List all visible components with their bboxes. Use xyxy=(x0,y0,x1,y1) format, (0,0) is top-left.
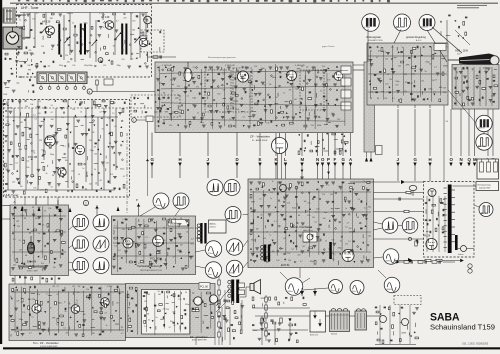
terminal G mid xyxy=(342,133,344,156)
terminal O mid xyxy=(322,133,324,156)
svg-text:1n: 1n xyxy=(249,96,251,98)
svg-text:G: G xyxy=(151,157,155,162)
svg-text:kaskade 18kV: kaskade 18kV xyxy=(479,188,491,190)
svg-text:geriete Regelung: geriete Regelung xyxy=(406,35,426,39)
svg-text:5k: 5k xyxy=(75,117,77,119)
svg-text:68: 68 xyxy=(100,180,102,182)
svg-text:100: 100 xyxy=(368,235,371,237)
svg-text:50: 50 xyxy=(340,240,342,242)
svg-text:4,7: 4,7 xyxy=(347,222,350,224)
svg-text:10k: 10k xyxy=(368,206,371,208)
video IF tube below block xyxy=(272,138,288,154)
width coil xyxy=(468,264,472,268)
svg-text:5k: 5k xyxy=(7,121,9,123)
ton-zf parts xyxy=(12,288,14,291)
ton-zf bus wires xyxy=(11,291,124,293)
videosignal scope circle xyxy=(362,14,380,32)
wire ZF top to video strip xyxy=(353,64,364,66)
svg-text:2,2: 2,2 xyxy=(364,207,367,209)
svg-text:330p: 330p xyxy=(116,65,120,67)
wire boost to line box xyxy=(405,181,424,183)
wires sync block to ton block xyxy=(14,276,16,285)
channel strip segment 1 xyxy=(39,74,47,82)
oscillator coupling parts xyxy=(153,56,158,58)
wire bottom sync to ton xyxy=(69,269,77,271)
circled 1 node xyxy=(132,118,137,123)
terminal G right xyxy=(414,109,416,156)
ZF internal bus rows xyxy=(160,70,348,73)
svg-text:1n: 1n xyxy=(102,166,104,168)
UHF tuner interior wires xyxy=(23,13,25,41)
scope circle above vert 2 xyxy=(173,193,189,209)
svg-text:2,2: 2,2 xyxy=(29,333,32,335)
wires grey block to line stage xyxy=(374,192,424,194)
svg-text:50: 50 xyxy=(163,121,165,123)
svg-text:1n: 1n xyxy=(325,240,327,242)
wire video block to terminals xyxy=(397,105,399,108)
AGC parts under ZF block xyxy=(298,134,300,136)
svg-text:50: 50 xyxy=(180,218,182,220)
svg-text:VERTICAL DEFLECTION: VERTICAL DEFLECTION xyxy=(140,269,162,272)
svg-text:4,7: 4,7 xyxy=(116,21,119,23)
svg-text:220: 220 xyxy=(395,84,398,86)
UHF trimmer arrows xyxy=(42,27,47,33)
sync waveform circle r1c2 xyxy=(93,215,109,231)
vert tube PCL85 triode xyxy=(123,238,133,248)
shield bar 4 xyxy=(121,24,123,55)
svg-text:47k: 47k xyxy=(103,65,106,67)
svg-text:einheit: einheit xyxy=(210,226,216,229)
svg-text:68: 68 xyxy=(94,147,96,149)
ton-zf transistor 3 xyxy=(101,298,110,307)
svg-text:5k: 5k xyxy=(32,53,34,55)
svg-text:220: 220 xyxy=(385,84,388,86)
svg-text:10k: 10k xyxy=(398,65,401,67)
tuner to sync connector wires xyxy=(14,197,16,205)
svg-text:0,1: 0,1 xyxy=(33,115,36,117)
terminal M right xyxy=(474,109,476,156)
svg-text:1M: 1M xyxy=(122,229,125,231)
transistor T1 AF139 xyxy=(46,26,55,35)
mixer transistor xyxy=(139,38,147,46)
svg-text:10k: 10k xyxy=(86,289,89,291)
tube cathode wires down xyxy=(277,154,279,181)
svg-text:50Vss: 50Vss xyxy=(226,191,231,193)
svg-text:220: 220 xyxy=(67,61,70,63)
wire transformer to speaker xyxy=(240,296,246,298)
wire to right scope circles xyxy=(448,90,476,123)
svg-text:1n: 1n xyxy=(270,198,272,200)
svg-text:12k: 12k xyxy=(389,79,392,81)
svg-text:330p: 330p xyxy=(8,108,12,110)
svg-text:PCL 85: PCL 85 xyxy=(150,257,160,261)
svg-text:M: M xyxy=(473,157,477,162)
svg-text:68: 68 xyxy=(113,45,115,47)
svg-text:A59 - 11W: A59 - 11W xyxy=(455,49,468,53)
svg-text:100: 100 xyxy=(120,27,123,29)
svg-text:50: 50 xyxy=(33,38,35,40)
svg-text:900Vss: 900Vss xyxy=(385,260,391,262)
svg-text:330p: 330p xyxy=(310,261,314,263)
svg-text:220: 220 xyxy=(297,255,300,257)
svg-text:2Vss: 2Vss xyxy=(209,191,213,193)
vert output transformer core bar 2 xyxy=(204,223,206,244)
scope circle mid single xyxy=(225,207,241,223)
svg-text:12k: 12k xyxy=(384,98,387,100)
wire transformer down xyxy=(240,303,242,330)
AGC small parts top right xyxy=(448,14,450,16)
horiz internal bus rows xyxy=(250,191,371,193)
terminal E mid xyxy=(259,133,261,156)
svg-text:O: O xyxy=(321,157,325,162)
svg-text:1M: 1M xyxy=(256,228,259,230)
svg-text:1n: 1n xyxy=(197,112,199,114)
svg-text:12k: 12k xyxy=(22,312,25,314)
svg-text:330p: 330p xyxy=(395,81,399,83)
svg-text:0,1: 0,1 xyxy=(270,192,273,194)
svg-text:0,1: 0,1 xyxy=(411,83,414,85)
NF audio block xyxy=(126,284,216,338)
svg-text:2,2: 2,2 xyxy=(186,95,189,97)
diode at sync top xyxy=(55,206,59,210)
ps horizontal wires xyxy=(252,307,310,309)
scope circle above vert 1 xyxy=(153,193,169,209)
balun parts left column xyxy=(5,53,8,55)
svg-text:4,7: 4,7 xyxy=(51,112,54,114)
audio output transformer core bar 1 xyxy=(231,280,234,304)
ZF right edge boxes xyxy=(341,66,351,74)
svg-text:1n: 1n xyxy=(106,325,108,327)
svg-text:47k: 47k xyxy=(191,243,194,245)
svg-text:4,7: 4,7 xyxy=(376,57,379,59)
svg-text:50: 50 xyxy=(51,186,53,188)
svg-text:2,2: 2,2 xyxy=(122,219,125,221)
horiz single core bar xyxy=(329,242,332,259)
svg-text:47k: 47k xyxy=(196,86,199,88)
svg-text:47k: 47k xyxy=(327,80,330,82)
svg-text:1M: 1M xyxy=(159,99,162,101)
tuner channel strip xyxy=(37,72,87,84)
svg-text:5k: 5k xyxy=(158,70,160,72)
parts row between sync and sound blocks xyxy=(12,278,14,281)
svg-text:220: 220 xyxy=(121,59,124,61)
scope circles grid right of vert 2 xyxy=(226,239,242,255)
svg-text:4,7: 4,7 xyxy=(169,327,172,329)
svg-text:H: H xyxy=(179,157,182,162)
wire ZF to video strip xyxy=(353,69,364,71)
antenna input connector xyxy=(3,8,15,23)
scope circle ps 2 xyxy=(350,281,364,295)
svg-text:4,7: 4,7 xyxy=(103,27,106,29)
channel strip segment 3 xyxy=(58,74,66,82)
svg-text:2,2: 2,2 xyxy=(357,199,360,201)
power wiring bottom xyxy=(255,315,310,317)
svg-text:AF 139: AF 139 xyxy=(101,15,110,19)
svg-text:220: 220 xyxy=(166,309,169,311)
parts on wires to line stage xyxy=(406,191,411,193)
terminal J wire xyxy=(207,133,209,157)
svg-text:P: P xyxy=(327,157,330,162)
svg-text:4,7: 4,7 xyxy=(172,257,175,259)
Horiz-Oszillator block xyxy=(248,179,374,268)
svg-text:50: 50 xyxy=(158,291,160,293)
booster diode tube PY81 xyxy=(428,189,436,197)
sync waveform circle r3c1 xyxy=(73,258,89,274)
svg-text:68: 68 xyxy=(298,215,300,217)
link wire circled1 xyxy=(136,119,146,121)
svg-text:10k: 10k xyxy=(20,186,23,188)
ps mid extra parts xyxy=(252,297,254,300)
boost rail parts row xyxy=(408,258,413,263)
svg-text:Q: Q xyxy=(468,157,472,162)
video amp parts xyxy=(369,46,371,48)
svg-text:650Vss: 650Vss xyxy=(386,289,392,291)
UHF tuner enclosure xyxy=(17,5,152,78)
svg-text:330p: 330p xyxy=(120,169,124,171)
svg-text:80Vss: 80Vss xyxy=(229,251,234,253)
svg-text:33Vss: 33Vss xyxy=(384,229,389,231)
flyback EHT winding bar xyxy=(455,235,458,250)
svg-text:1M: 1M xyxy=(19,249,22,251)
wire from tuner to IF strip xyxy=(92,91,199,93)
svg-text:H: H xyxy=(429,157,432,162)
audio inner box xyxy=(142,290,191,335)
svg-text:50: 50 xyxy=(424,71,426,73)
top border line xyxy=(10,2,498,5)
VHF top dashed bus xyxy=(4,107,153,109)
CRT base block xyxy=(452,65,499,110)
svg-text:68: 68 xyxy=(377,98,379,100)
svg-text:0,1: 0,1 xyxy=(61,117,64,119)
connector lines horiz scopes xyxy=(374,222,383,224)
mixer coupling box xyxy=(104,79,113,85)
svg-text:1Vss: 1Vss xyxy=(330,290,334,292)
500kHz filter box xyxy=(168,220,189,227)
wire from IF filter down xyxy=(147,122,149,197)
svg-text:190Vss: 190Vss xyxy=(478,146,484,148)
svg-text:68: 68 xyxy=(32,207,34,209)
terminal A left xyxy=(2,205,10,207)
svg-text:12Vss: 12Vss xyxy=(95,226,100,228)
horiz internal vertical wires xyxy=(252,191,254,256)
svg-text:100: 100 xyxy=(330,194,333,196)
ballast resistor finned 1 xyxy=(330,311,350,332)
stabilising coil windings xyxy=(261,245,264,248)
svg-text:12k: 12k xyxy=(37,294,40,296)
svg-text:47k: 47k xyxy=(307,215,310,217)
svg-text:2,2: 2,2 xyxy=(32,100,35,102)
svg-text:47k: 47k xyxy=(180,244,183,246)
svg-text:1n: 1n xyxy=(122,44,124,46)
tuner input can xyxy=(3,27,22,49)
terminal H right xyxy=(429,109,431,156)
terminal Q right xyxy=(468,109,470,156)
svg-text:50: 50 xyxy=(194,98,196,100)
svg-text:2,2: 2,2 xyxy=(291,248,294,250)
svg-text:30Vss: 30Vss xyxy=(175,205,180,207)
svg-text:5k: 5k xyxy=(64,311,66,313)
svg-text:0,1: 0,1 xyxy=(63,327,66,329)
scope circle horiz 2 xyxy=(402,218,418,234)
svg-text:AF 139: AF 139 xyxy=(42,20,51,24)
horiz freq pot box xyxy=(303,232,317,242)
terminal P vert top xyxy=(138,203,140,216)
audio inner parts xyxy=(144,291,146,293)
svg-text:68: 68 xyxy=(163,240,165,242)
svg-text:N: N xyxy=(460,157,463,162)
shield bar 3 xyxy=(84,24,86,55)
svg-text:12k: 12k xyxy=(89,140,92,142)
svg-text:10k: 10k xyxy=(303,201,306,203)
shield bar 5 xyxy=(125,24,127,55)
svg-text:4,7: 4,7 xyxy=(123,176,126,178)
svg-text:B250 C75: B250 C75 xyxy=(310,335,318,337)
ps right parts xyxy=(375,306,377,308)
horiz small tube xyxy=(280,185,287,192)
svg-text:1M: 1M xyxy=(54,231,57,233)
svg-text:50: 50 xyxy=(118,250,120,252)
svg-text:12k: 12k xyxy=(421,81,424,83)
svg-text:330p: 330p xyxy=(303,242,307,244)
svg-text:12k: 12k xyxy=(322,194,325,196)
svg-text:68: 68 xyxy=(163,93,165,95)
terminal D wire xyxy=(236,133,238,157)
flyback transformer core bar xyxy=(448,185,452,254)
svg-text:220: 220 xyxy=(12,182,15,184)
flyback winding ticks xyxy=(444,187,447,189)
svg-text:50: 50 xyxy=(19,240,21,242)
svg-text:4Vss: 4Vss xyxy=(352,291,356,293)
terminals F E on video strip xyxy=(365,157,368,162)
svg-text:50: 50 xyxy=(78,174,80,176)
resistor near strip xyxy=(96,80,98,85)
terminal O right xyxy=(450,109,452,156)
deflection yoke box xyxy=(209,220,227,233)
svg-text:220: 220 xyxy=(348,228,351,230)
svg-text:0,1: 0,1 xyxy=(39,101,42,103)
channel strip contact row xyxy=(40,87,43,90)
svg-text:330p: 330p xyxy=(338,248,342,250)
svg-text:1n: 1n xyxy=(72,22,74,24)
svg-text:Horiz. Freq.: Horiz. Freq. xyxy=(303,229,313,232)
svg-text:10k: 10k xyxy=(32,19,35,21)
svg-text:Netzteil: Netzteil xyxy=(331,333,338,336)
svg-text:68: 68 xyxy=(370,98,372,100)
scope circle audio big xyxy=(285,278,303,296)
sync waveform circle r2c1 xyxy=(73,236,89,252)
svg-text:2,2: 2,2 xyxy=(138,263,141,265)
svg-text:47k: 47k xyxy=(110,174,113,176)
svg-text:0,7Vss: 0,7Vss xyxy=(364,27,370,29)
svg-text:100: 100 xyxy=(276,260,279,262)
svg-text:68: 68 xyxy=(52,175,54,177)
wire horiz block bottom to ps xyxy=(299,268,301,279)
svg-text:4,7: 4,7 xyxy=(121,333,124,335)
svg-text:2,2: 2,2 xyxy=(112,113,115,115)
svg-text:140Vss: 140Vss xyxy=(478,128,484,130)
shield bar 1 xyxy=(58,24,60,55)
svg-text:120Vss: 120Vss xyxy=(404,229,410,231)
svg-text:10k: 10k xyxy=(217,93,220,95)
horiz osc tube ECH81 xyxy=(342,250,354,262)
svg-text:E: E xyxy=(259,157,262,162)
svg-text:50: 50 xyxy=(259,199,261,201)
svg-text:10k: 10k xyxy=(266,123,269,125)
svg-text:47k: 47k xyxy=(72,286,75,288)
svg-text:N: N xyxy=(316,157,319,162)
terminal J right xyxy=(397,109,399,156)
UHF tuner top bus wire xyxy=(20,12,148,14)
svg-text:2,2: 2,2 xyxy=(56,286,59,288)
svg-text:4,7: 4,7 xyxy=(434,79,437,81)
vert tube PCL85 pentode xyxy=(153,236,164,247)
sync waveform circle r2c2 xyxy=(93,236,109,252)
svg-text:P: P xyxy=(136,198,138,202)
svg-text:1M: 1M xyxy=(53,267,56,269)
ton-zf transistor 1 xyxy=(32,304,41,313)
svg-text:220: 220 xyxy=(89,184,92,186)
terminal N mid xyxy=(317,133,319,156)
ZF interior dashed sub-box 2 xyxy=(233,68,252,112)
scope circle right top pair 1 xyxy=(476,115,492,131)
svg-text:220: 220 xyxy=(311,125,314,127)
vert internal bus rows xyxy=(113,227,194,229)
vert transformer windings xyxy=(197,224,200,227)
small parts row y258 right xyxy=(416,239,418,241)
ZF interior dense parts xyxy=(157,66,159,68)
CRT base parts xyxy=(453,67,457,69)
svg-text:0,1: 0,1 xyxy=(130,13,133,15)
svg-text:1n: 1n xyxy=(173,218,175,220)
svg-text:12k: 12k xyxy=(287,253,290,255)
mains components left xyxy=(261,318,263,323)
Impulsabtrennung block xyxy=(10,205,69,276)
svg-text:12k: 12k xyxy=(312,217,315,219)
svg-text:G: G xyxy=(342,157,346,162)
ton internal vertical wires xyxy=(14,289,16,333)
VHF tuner enclosure xyxy=(4,100,130,198)
svg-text:14Vss: 14Vss xyxy=(288,291,293,293)
svg-text:330p: 330p xyxy=(69,307,73,309)
HV cascade box xyxy=(476,182,499,191)
PCL86 label box xyxy=(199,283,210,290)
wire vert block to transformer xyxy=(196,227,199,229)
svg-text:12k: 12k xyxy=(17,226,20,228)
svg-text:12k: 12k xyxy=(291,227,294,229)
channel strip segment 2 xyxy=(49,74,57,82)
svg-text:100: 100 xyxy=(132,30,135,32)
video amp vertical wires xyxy=(369,51,371,98)
svg-text:D: D xyxy=(236,157,239,162)
svg-text:0,1: 0,1 xyxy=(345,227,348,229)
mixer parts xyxy=(142,32,144,36)
terminal P mid xyxy=(328,133,330,156)
line output interior wires xyxy=(426,196,428,252)
scope circle right top pair 2 xyxy=(476,134,492,150)
svg-text:0,1: 0,1 xyxy=(434,66,437,68)
svg-text:100: 100 xyxy=(51,119,54,121)
svg-text:10k: 10k xyxy=(385,59,388,61)
svg-text:1M: 1M xyxy=(108,143,111,145)
svg-text:1n: 1n xyxy=(19,20,21,22)
audio internal wires xyxy=(127,291,129,332)
svg-text:SOUND IF AMPLIFIER: SOUND IF AMPLIFIER xyxy=(40,345,58,348)
sync waveform circle r1c1 xyxy=(73,215,89,231)
svg-text:47k: 47k xyxy=(345,244,348,246)
thermistor circle 1 xyxy=(380,316,387,323)
sound trap box xyxy=(376,146,383,155)
mains bottom parts xyxy=(252,324,254,326)
